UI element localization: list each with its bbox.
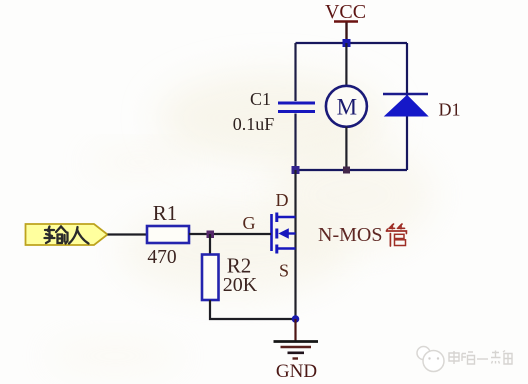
- wire top rail: [296, 42, 408, 44]
- svg-text:20K: 20K: [223, 274, 258, 296]
- wire R1 to gate: [189, 233, 271, 235]
- capacitor C1: [278, 103, 315, 112]
- wire diode branch: [406, 43, 408, 170]
- wire input to R1: [108, 233, 148, 235]
- wire drain trunk: [294, 170, 296, 319]
- label 管 (CJK glyph drawn): [387, 224, 407, 246]
- svg-text:GND: GND: [276, 361, 317, 382]
- node VCC junction: [343, 39, 351, 47]
- wire VCC stub: [345, 23, 347, 44]
- svg-text:G: G: [243, 213, 256, 233]
- wire ground stub: [294, 319, 296, 341]
- resistor R2: [202, 255, 219, 301]
- wire C1 branch upper: [294, 43, 296, 101]
- node rail-motor junction: [343, 167, 350, 174]
- wire bottom rail: [296, 169, 408, 171]
- wire node to R2: [209, 234, 211, 255]
- label 输入 (CJK glyphs drawn): [45, 227, 89, 244]
- svg-text:R1: R1: [153, 201, 178, 225]
- ground: [274, 342, 319, 359]
- svg-text:N-MOS: N-MOS: [318, 224, 382, 246]
- svg-text:D1: D1: [439, 99, 461, 119]
- transistor Q1 N-MOSFET: [272, 213, 296, 254]
- resistor R1: [147, 226, 189, 243]
- wire C1 branch lower: [294, 114, 296, 171]
- svg-text:D: D: [276, 190, 289, 210]
- watermark text 电路一点通: [449, 351, 512, 365]
- node gate junction: [207, 231, 215, 239]
- wire motor branch upper: [345, 43, 347, 86]
- node rail-C1 junction: [292, 166, 300, 174]
- motor M: [326, 86, 367, 127]
- svg-text:470: 470: [147, 247, 176, 268]
- diode D1: [383, 94, 428, 116]
- svg-text:C1: C1: [250, 89, 271, 109]
- svg-text:VCC: VCC: [325, 1, 366, 23]
- wire motor branch lower: [345, 127, 347, 170]
- svg-text:M: M: [337, 94, 357, 119]
- svg-text:S: S: [279, 260, 289, 280]
- watermark logo circles: [417, 347, 444, 372]
- input flag: [26, 224, 108, 245]
- VCC power bar: [334, 20, 358, 23]
- wire R2 to ground rail: [210, 300, 296, 319]
- svg-text:0.1uF: 0.1uF: [233, 114, 275, 134]
- node source-ground junction: [292, 315, 300, 323]
